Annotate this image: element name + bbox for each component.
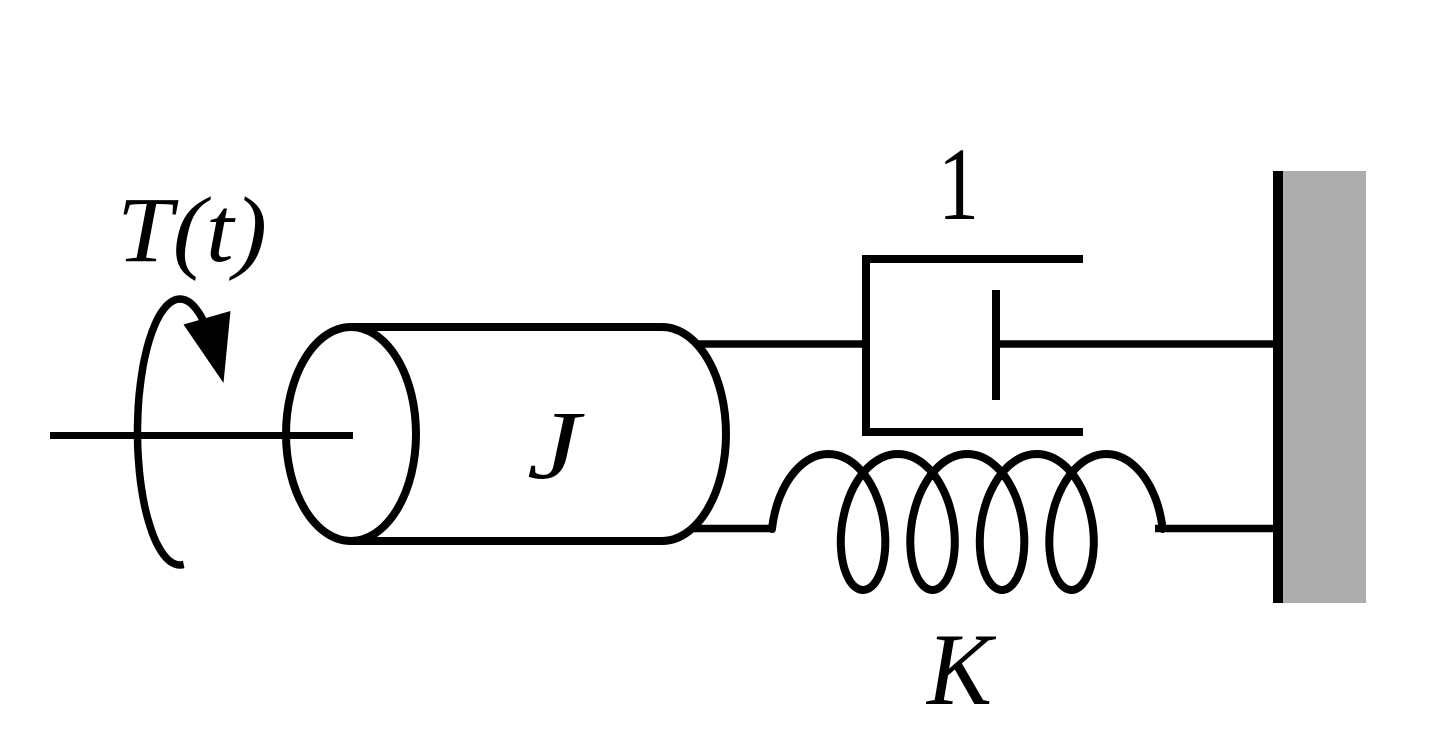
rotation arrowhead bbox=[184, 311, 231, 383]
wire spring to wall bbox=[1155, 525, 1278, 533]
svg-text:T(t): T(t) bbox=[117, 179, 267, 282]
inertia cylinder J body bbox=[351, 327, 726, 541]
svg-text:1: 1 bbox=[938, 127, 979, 242]
shaft wire bbox=[50, 432, 353, 439]
damper piston bbox=[992, 290, 1000, 400]
spring K coil bbox=[772, 454, 1163, 590]
wall black edge line bbox=[1273, 171, 1283, 603]
rotation arrow arc bbox=[138, 299, 206, 565]
svg-text:J: J bbox=[527, 392, 585, 499]
damper cup left wall bbox=[862, 255, 870, 436]
inertia cylinder front ellipse bbox=[286, 327, 416, 541]
svg-text:K: K bbox=[925, 613, 997, 727]
damper cup bottom line bbox=[862, 428, 1083, 436]
wire cylinder to spring bbox=[694, 525, 775, 533]
wall gray slab bbox=[1282, 171, 1366, 603]
damper cup top line bbox=[862, 255, 1083, 263]
wire cylinder to damper bbox=[695, 340, 866, 348]
damper rod wire to wall bbox=[996, 340, 1278, 348]
